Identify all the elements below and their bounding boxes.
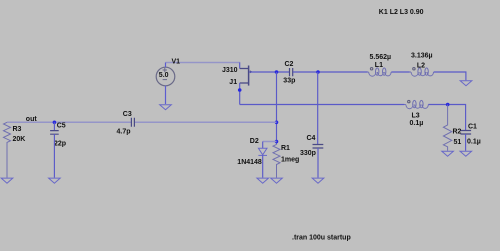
svg-text:C5: C5 [57, 123, 66, 130]
junction C5 top [53, 121, 57, 125]
wire gate node down to R1 [276, 72, 278, 144]
ground under V1 [160, 105, 172, 110]
svg-text:R1: R1 [281, 145, 290, 152]
capacitor C4 [313, 145, 324, 149]
svg-text:3.136µ: 3.136µ [411, 53, 433, 60]
inductor L2 [410, 68, 434, 76]
wire C5 lead [53, 122, 55, 130]
wire D2 branch horizontal [263, 142, 277, 149]
wire C1 to ground [465, 134, 467, 151]
gate arrow of J1 [250, 70, 253, 73]
svg-text:C3: C3 [123, 111, 132, 118]
ground under C5 [49, 178, 61, 183]
svg-text:out: out [26, 116, 38, 123]
transistor J1 (J310 JFET) [240, 66, 249, 86]
inductor L1 [368, 68, 393, 76]
svg-text:L3: L3 [412, 113, 420, 120]
diode D2 [258, 148, 267, 155]
ground under R3 [1, 178, 13, 183]
svg-text:J310: J310 [222, 67, 238, 74]
ground top right [460, 81, 472, 86]
capacitor C3 [131, 118, 134, 127]
svg-text:L2: L2 [417, 63, 425, 70]
wire L1 to L2 [392, 71, 410, 73]
junction gate node [275, 70, 279, 74]
ground under C4 [312, 178, 324, 183]
junction out rail [275, 121, 279, 125]
inductor L3 [404, 100, 429, 108]
wire C5 to ground [53, 134, 55, 177]
wire top rail V1 to J1 drain [166, 63, 241, 69]
svg-text:C1: C1 [468, 124, 477, 131]
wire gate to C2 [249, 71, 289, 73]
svg-text:51: 51 [454, 139, 462, 146]
svg-text:1meg: 1meg [281, 157, 299, 164]
capacitor C1 [461, 131, 472, 135]
junction L3/R2 [446, 103, 450, 107]
svg-text:R3: R3 [13, 126, 22, 133]
svg-text:20K: 20K [13, 136, 26, 143]
resistor R3 [4, 122, 11, 177]
wire J1 source down [239, 83, 241, 105]
phase dot L2 [413, 68, 415, 70]
svg-text:0.1µ: 0.1µ [410, 120, 424, 127]
resistor R1 [273, 144, 280, 177]
svg-text:5.0: 5.0 [159, 72, 169, 79]
svg-text:.tran 100u startup: .tran 100u startup [292, 235, 351, 242]
wire C2 to L1 [293, 71, 368, 73]
svg-text:D2: D2 [250, 138, 259, 145]
svg-text:L1: L1 [375, 62, 383, 69]
resistor R2 [443, 105, 451, 151]
svg-text:R2: R2 [453, 129, 462, 136]
svg-text:33p: 33p [283, 78, 295, 85]
svg-text:V1: V1 [172, 59, 181, 66]
ground under D2 [257, 178, 269, 183]
ground under R2 [442, 151, 454, 156]
wire D2 to ground [262, 155, 264, 177]
ground under R1 [271, 178, 283, 183]
phase dot L3 [408, 100, 410, 102]
svg-text:5.562µ: 5.562µ [370, 54, 392, 61]
wire out rail [7, 121, 277, 123]
wire J1 source rail to L3 [240, 104, 405, 106]
junction J1 source [238, 88, 242, 92]
capacitor C2 [290, 68, 293, 76]
svg-text:4.7p: 4.7p [117, 129, 131, 136]
wire L3 to C1 column [428, 105, 465, 131]
capacitor C5 [50, 131, 59, 135]
phase dot L1 [370, 68, 372, 70]
svg-text:22p: 22p [54, 140, 66, 147]
svg-text:C4: C4 [307, 135, 316, 142]
svg-text:K1 L2 L3 0.90: K1 L2 L3 0.90 [379, 9, 424, 16]
svg-text:330p: 330p [300, 150, 316, 157]
svg-text:J1: J1 [229, 79, 237, 86]
wire C4 branch vertical [317, 72, 319, 144]
svg-text:1N4148: 1N4148 [237, 159, 262, 166]
junction C2 right / C4 branch [316, 70, 320, 74]
wire L2 to ground [434, 72, 466, 80]
svg-text:0.1µ: 0.1µ [467, 139, 481, 146]
wire C4 to ground [317, 148, 319, 178]
junction D2 branch [275, 140, 279, 144]
svg-text:C2: C2 [285, 61, 294, 68]
voltage source V1 [156, 63, 175, 105]
ground under C1 [460, 151, 472, 156]
